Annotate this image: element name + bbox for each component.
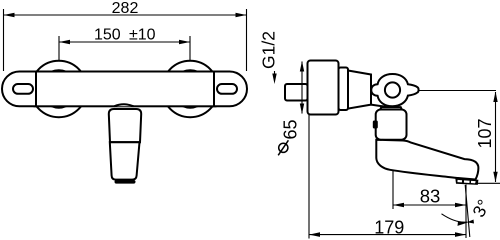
side screw bump — [373, 121, 378, 129]
slot right — [217, 84, 237, 94]
handle lower box — [110, 142, 140, 179]
escutcheon circle left outer — [31, 61, 87, 117]
body ring — [339, 68, 349, 111]
dim 150 extension line left — [58, 36, 60, 61]
3 degree arc — [442, 214, 468, 222]
svg-text:G1/2: G1/2 — [259, 31, 279, 69]
3 degree arc arrowhead — [458, 222, 469, 226]
handle divider — [109, 141, 141, 143]
dim 107 arrow down — [493, 172, 497, 183]
wall ear right — [214, 72, 247, 107]
lever knob hub — [385, 82, 400, 97]
handle upper box — [109, 109, 141, 142]
svg-text:±10: ±10 — [129, 27, 156, 44]
dim 83 arrow left — [393, 203, 404, 208]
svg-text:83: 83 — [420, 185, 441, 206]
dim 83 extension left — [392, 170, 394, 209]
valve body — [376, 110, 407, 140]
handle bottom cap — [115, 180, 136, 184]
handle dome — [114, 104, 133, 106]
dim 282 line — [4, 14, 247, 16]
svg-text:150: 150 — [94, 27, 121, 44]
dim 150 arrow left — [59, 40, 70, 45]
knob pedestal — [380, 107, 403, 110]
escutcheon circle right inner — [172, 70, 209, 107]
dim Ø65 arrow down — [300, 104, 304, 115]
aerator slot 2 — [464, 180, 470, 183]
slot left — [13, 84, 33, 94]
dim Ø65 arrow up — [300, 61, 304, 72]
dim 282 arrow left — [4, 13, 15, 18]
spout aerator — [455, 178, 478, 185]
dim 150 extension line right — [189, 36, 191, 61]
dim Ø65 text — [278, 119, 300, 155]
dim 282 extension line right — [246, 9, 248, 71]
escutcheon circle right outer — [162, 61, 218, 117]
svg-text:179: 179 — [374, 217, 404, 237]
aerator slot 3 — [471, 181, 476, 184]
escutcheon circle left inner — [40, 70, 77, 107]
dim 282 arrow right — [236, 13, 247, 18]
svg-text:282: 282 — [112, 0, 139, 17]
vertical reference line at spout outlet — [465, 185, 467, 239]
dim 107 arrow up — [493, 92, 497, 103]
dim 179 arrow left — [309, 232, 320, 237]
svg-text:65: 65 — [281, 119, 301, 139]
3 degree slanted line — [465, 185, 470, 237]
aerator slot 1 — [457, 180, 462, 183]
dim 150 line — [59, 41, 190, 43]
inlet nipple — [285, 84, 308, 101]
dim 179 extension left — [308, 115, 310, 239]
dim 107 line — [495, 92, 497, 182]
dim 179 line — [309, 234, 466, 236]
3 degree arc arrowhead mirror — [467, 220, 474, 224]
wall ear left — [2, 72, 36, 107]
dim 150 arrow right — [179, 40, 190, 45]
wall escutcheon disc — [308, 61, 339, 115]
dim 107 extension bottom — [475, 182, 500, 184]
dim 83 arrow right — [455, 203, 466, 208]
lever knob — [371, 74, 418, 106]
cone to handle — [348, 71, 371, 109]
G1/2 leader line — [274, 71, 276, 76]
dim 107 extension top — [419, 90, 497, 92]
dim 179 arrow right — [455, 232, 466, 237]
dim 83 line — [393, 204, 466, 206]
cone bottom edge continuation — [371, 105, 386, 107]
G1/2 leader arrow — [272, 74, 276, 85]
dim Ø65 line — [301, 62, 303, 114]
faucet body bar — [35, 72, 216, 107]
spout — [376, 140, 478, 180]
dim 282 extension line left — [3, 9, 5, 71]
svg-text:107: 107 — [475, 118, 495, 148]
